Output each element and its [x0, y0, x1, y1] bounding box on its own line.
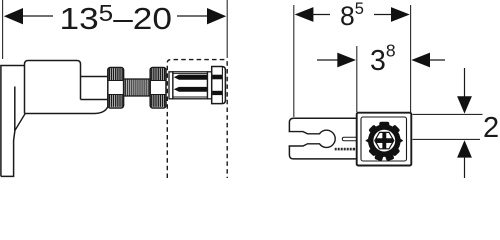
- svg-text:2: 2: [483, 112, 499, 144]
- svg-text:85: 85: [340, 0, 364, 31]
- svg-text:135–20: 135–20: [60, 0, 173, 36]
- svg-text:38: 38: [370, 41, 396, 78]
